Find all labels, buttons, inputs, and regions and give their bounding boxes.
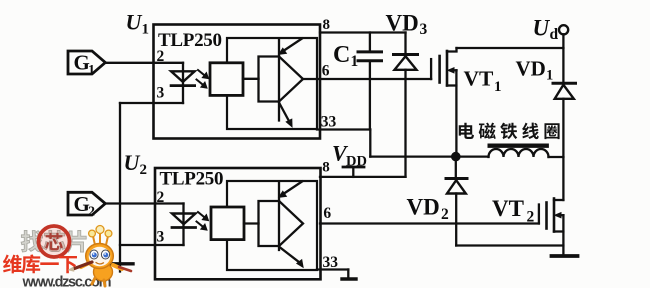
wire rail to VD1	[562, 48, 564, 82]
wire Ud rail	[457, 47, 564, 49]
transistor VT1 source lead	[447, 84, 456, 86]
svg-text:3: 3	[157, 84, 165, 101]
transistor VT2 gate lead hook	[538, 205, 540, 224]
wire U2 pin3	[120, 244, 184, 246]
diode VD3 cathode lead	[404, 33, 406, 54]
capacitor C1 top lead	[369, 33, 371, 51]
diode LED U2 cathode bar	[172, 226, 196, 229]
label electromagnet coil	[459, 123, 560, 140]
wire VD2 anode down to bottom rail	[455, 194, 457, 246]
wire G2 to U2 pin2	[105, 202, 183, 204]
transistor pair U2 triangle	[279, 201, 303, 246]
driver bracket U1	[259, 57, 280, 102]
transistor VT2 drain lead	[554, 199, 563, 201]
watermark find-chip text	[21, 230, 86, 252]
diode LED U2 triangle	[172, 214, 196, 225]
op-amp U2 outer box	[155, 168, 321, 279]
wire U2 detector to driver	[244, 222, 259, 224]
driver rail U2 vertical	[278, 183, 280, 250]
photodetector U1 box	[210, 63, 243, 96]
LED light arrows U2	[197, 212, 209, 230]
node A wire	[370, 155, 488, 157]
diode VD2 triangle	[447, 180, 466, 193]
ground input common stub	[119, 266, 121, 272]
transistor VT1 gate plate	[438, 56, 441, 83]
diode LED U1 anode lead	[182, 63, 184, 85]
watermark mascot	[68, 226, 132, 287]
diode LED U1 cathode bar	[171, 84, 195, 87]
svg-text:d: d	[550, 26, 559, 43]
svg-text:2: 2	[157, 48, 165, 65]
transistor U2 top collector with arrow	[283, 182, 303, 195]
driver rail U1 vertical	[278, 39, 280, 121]
svg-text:1: 1	[494, 79, 502, 95]
svg-text:2: 2	[140, 162, 148, 178]
ground input common bar	[112, 262, 134, 265]
transistor VT2 body arrow	[558, 214, 564, 216]
power VDD terminal stub	[352, 168, 354, 177]
diode LED U1 triangle	[171, 71, 195, 82]
transistor U2 bottom emitter arrow	[280, 247, 300, 263]
diode VD3 anode lead to VDD rail	[404, 70, 406, 177]
ground VT2 bar	[552, 254, 578, 258]
wire U2 pin33 down	[347, 270, 349, 278]
op-amp U1 inner box	[227, 38, 317, 129]
wire U1 pin3	[120, 102, 183, 104]
svg-text:U: U	[126, 10, 143, 35]
inductor coil arcs	[489, 149, 549, 157]
transistor VT1 drain lead	[447, 48, 457, 52]
junction node A dot	[451, 152, 461, 162]
svg-text:DD: DD	[346, 153, 367, 169]
transistor pair U1 triangle	[279, 57, 303, 102]
svg-text:1: 1	[351, 53, 359, 70]
diode VD1 triangle	[555, 85, 574, 99]
svg-text:TLP250: TLP250	[160, 168, 224, 189]
wire VT2 drain up to coil	[562, 157, 564, 200]
diode VD1 cathode bar	[553, 82, 576, 85]
power VDD terminal bar	[343, 166, 364, 169]
svg-text:1: 1	[546, 68, 553, 84]
svg-text:3: 3	[420, 21, 428, 38]
svg-text:2: 2	[88, 205, 95, 220]
ground U2 bar	[342, 277, 356, 280]
svg-text:6: 6	[323, 205, 331, 222]
svg-text:2: 2	[157, 189, 165, 206]
svg-text:C: C	[333, 42, 350, 68]
transistor VT1 channel bar	[446, 51, 449, 86]
wire U1 pin6 output	[303, 78, 431, 80]
svg-text:8: 8	[322, 160, 330, 176]
svg-text:VD: VD	[407, 195, 440, 220]
wire common input return	[119, 103, 121, 263]
diode LED U1 cathode lead	[182, 86, 184, 103]
svg-text:1: 1	[142, 22, 150, 38]
op-amp U1 outer box	[154, 25, 321, 139]
transistor VT2 gate plate	[545, 203, 548, 229]
svg-text:1: 1	[88, 63, 95, 78]
capacitor C1 bottom lead	[369, 62, 371, 130]
wire bottom rail	[456, 244, 563, 246]
wire node A to VD2	[455, 157, 457, 177]
diode VD3 triangle	[395, 56, 417, 70]
svg-text:U: U	[124, 150, 141, 175]
svg-text:2: 2	[527, 209, 535, 226]
wire VT2 source to ground	[562, 215, 564, 253]
op-amp U2 inner box	[227, 181, 317, 270]
wire VT1 source to node A	[455, 70, 457, 156]
node G2 terminal	[68, 192, 105, 215]
svg-text:33: 33	[323, 254, 339, 271]
node G1 terminal	[68, 51, 105, 74]
wire U1 pin8	[320, 31, 406, 33]
wire coil right to rail	[549, 156, 564, 158]
diode LED U2 anode lead	[182, 204, 184, 227]
inductor core bar	[490, 143, 547, 147]
wire U1 detector to driver	[243, 78, 259, 80]
transistor VT2 source lead	[554, 230, 563, 232]
svg-text:3: 3	[157, 229, 165, 246]
diode VD3 cathode bar	[394, 53, 418, 56]
wire U2 pin6 gate drive	[320, 222, 539, 224]
wire U1 pin33	[317, 128, 370, 130]
svg-text:VD: VD	[516, 56, 546, 80]
watermark weiku text	[3, 254, 77, 273]
watermark magnifier chip char	[45, 233, 63, 250]
diode VD2 cathode bar	[446, 177, 467, 180]
svg-text:VD: VD	[386, 11, 419, 36]
wire U2 pin8 VDD rail	[320, 176, 406, 178]
wire U2 pin33	[317, 268, 348, 270]
svg-text:6: 6	[322, 63, 330, 80]
wire VD1 anode down to coil right	[562, 99, 564, 157]
capacitor C1 plates	[358, 50, 382, 53]
transistor U1 bottom emitter arrow	[279, 103, 290, 123]
photodetector U2 box	[211, 207, 244, 240]
svg-text:2: 2	[441, 206, 449, 223]
svg-text:VT: VT	[464, 67, 495, 91]
wire G1 to U1 pin2	[105, 62, 183, 64]
transistor VT1 gate lead hook	[430, 59, 432, 79]
driver bracket U2	[259, 201, 280, 246]
wire Ud to rail	[562, 34, 564, 48]
transistor U1 top collector with arrow	[283, 39, 303, 52]
svg-text:8: 8	[323, 17, 331, 33]
diode LED U2 cathode lead	[182, 228, 184, 246]
svg-text:VT: VT	[492, 196, 524, 221]
svg-text:TLP250: TLP250	[158, 30, 222, 51]
svg-text:U: U	[533, 16, 551, 41]
LED light arrows U1	[197, 70, 209, 88]
transistor VT1 body arrow	[451, 69, 457, 71]
wire pin33 to node A vertical	[369, 130, 371, 157]
watermark magnifier circle	[39, 226, 70, 257]
transistor VT2 channel bar	[553, 199, 556, 232]
terminal Ud circle	[559, 25, 568, 34]
svg-text:33: 33	[321, 113, 337, 130]
